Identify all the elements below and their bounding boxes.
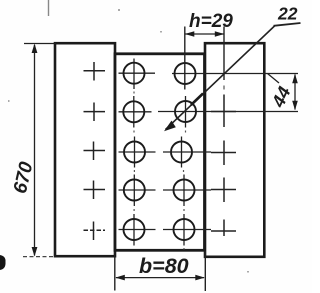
svg-text:b=80: b=80 [139, 254, 189, 278]
row 3 centerline left segment [119, 151, 156, 153]
hole row4 col2 [174, 180, 195, 201]
hole row1 col2 [175, 63, 196, 84]
dimension b=80 arrow right [195, 275, 205, 281]
bolt mark right plate row4 [211, 178, 236, 203]
bolt mark left plate row3 [84, 142, 106, 161]
scan artifact fold line top-left [48, 0, 50, 16]
hidden gauge line dash [223, 86, 225, 90]
right splice plate [205, 43, 264, 257]
dimension h=29 arrow left [185, 31, 195, 37]
svg-text:22: 22 [277, 4, 298, 24]
centerline gap dashes col2 [184, 131, 186, 250]
dimension h=29 arrow right [215, 31, 225, 37]
dimension 670 arrow down [32, 247, 38, 257]
hole column 1 vertical centerline row4 [133, 175, 135, 207]
bolt mark right plate row5 [211, 220, 236, 237]
row 4 centerline right segment [163, 189, 211, 191]
hole column 1 vertical centerline row1 [133, 59, 135, 90]
bolt mark left plate row1 [84, 62, 106, 81]
dimension 670 line [34, 45, 36, 256]
hole column 2 vertical centerline row5 [183, 214, 185, 246]
dimension 44 oblique tick [268, 74, 280, 84]
hole column 2 vertical centerline row4 [183, 175, 185, 207]
dimension 44 arrow up [292, 74, 298, 84]
central plate [115, 54, 205, 251]
row 1 centerline left segment [119, 72, 156, 74]
leader 22 line [166, 26, 275, 130]
row 5 centerline left segment [119, 229, 156, 231]
row 1 centerline right extended to 44 dim [172, 73, 298, 75]
hole column 2 vertical centerline row3 [181, 137, 183, 168]
hole row2 col1 [123, 101, 144, 122]
hole row5 col1 [124, 219, 145, 240]
dimension h=29 line [185, 33, 224, 35]
leader 22 arrowhead [164, 121, 176, 132]
left splice plate [55, 43, 115, 256]
hole row3 col2 [171, 142, 192, 163]
row 2 centerline left segment [119, 111, 152, 113]
dimension b=80 line [116, 277, 204, 279]
dimension 670 leader lines [24, 43, 56, 45]
hole column 1 vertical centerline row5 [133, 214, 135, 246]
bolt mark left plate row2 [84, 103, 106, 122]
hole row1 col1 [124, 63, 145, 84]
bolt mark left plate row4 [84, 181, 106, 200]
bolt mark left plate row5 [84, 222, 106, 241]
dimension h=29 extension left / hole col2 row1 centerline [184, 27, 186, 90]
bolt mark right plate row2 [211, 95, 236, 128]
dimension 44 arrow down [292, 101, 298, 111]
dimension b=80 extension left [114, 252, 116, 291]
hole row4 col1 [124, 180, 145, 201]
row 3 centerline right segment [163, 151, 211, 153]
hole column 1 vertical centerline row2 [133, 96, 135, 128]
dimension h=29 extension right / hidden gauge line [223, 27, 225, 81]
hole column 1 vertical centerline row3 [134, 137, 136, 168]
dimension b=80 arrow left [115, 275, 125, 281]
dimension 670 arrow up [32, 44, 38, 54]
hole row3 col1 [124, 142, 145, 163]
leader 22 underline [274, 23, 301, 26]
row 2 centerline right extended to 44 dim [158, 111, 298, 113]
centerline gap dashes col1 [133, 92, 135, 212]
row 4 centerline left segment [119, 189, 156, 191]
scan artifact blob bottom-left [0, 255, 6, 270]
hole column 2 vertical centerline row2 [185, 96, 187, 128]
bolt mark right plate row3 [211, 141, 236, 166]
row 5 centerline right segment [163, 229, 211, 231]
scan speckles [8, 9, 249, 273]
svg-text:h=29: h=29 [189, 11, 233, 32]
hole row2 col2 [175, 101, 196, 122]
dimension b=80 extension right [204, 251, 206, 291]
dimension 44 line [294, 75, 296, 110]
hole row5 col2 [174, 219, 195, 240]
leader 22 ink blotch [191, 94, 203, 106]
